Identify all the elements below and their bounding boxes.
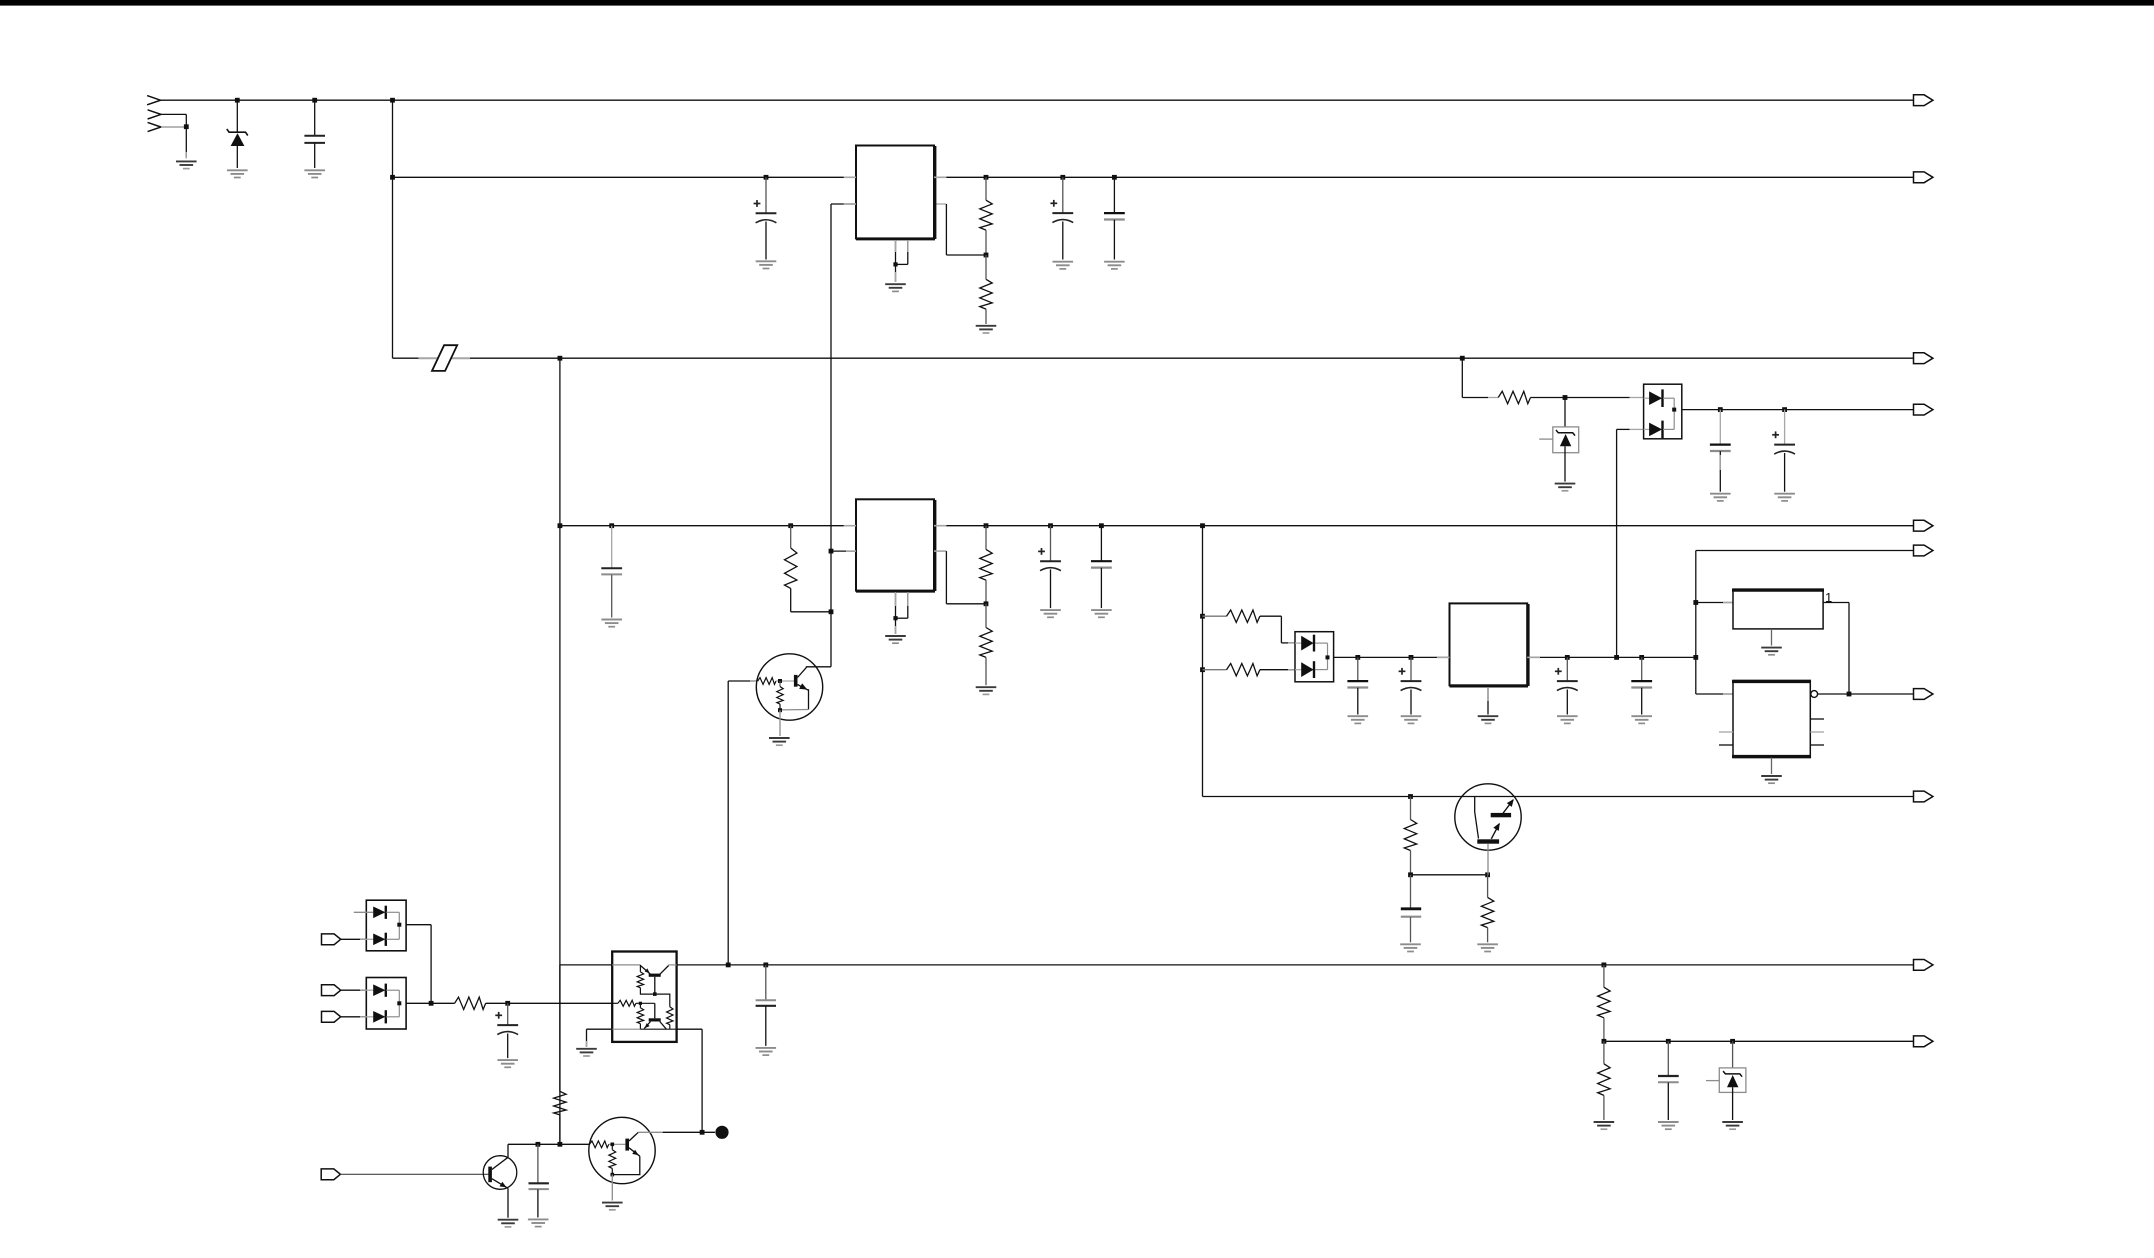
node junction bbox=[1693, 600, 1698, 605]
output connector P10 bbox=[1914, 1036, 1933, 1047]
capacitor C6 junction bbox=[1355, 655, 1360, 660]
U2 output stub bbox=[934, 525, 946, 527]
node junction bbox=[1847, 692, 1852, 697]
dual diode D6 bbox=[341, 978, 406, 1030]
transistor Q4 bbox=[1455, 784, 1521, 875]
node junction bbox=[829, 609, 834, 614]
node junction bbox=[1200, 523, 1205, 528]
node junction bbox=[558, 356, 563, 361]
transistor Q5 bbox=[589, 1117, 655, 1200]
ground bbox=[1400, 944, 1421, 951]
tvs D3 bbox=[1539, 398, 1579, 482]
ground bbox=[1091, 610, 1112, 617]
K1 gnd pin bbox=[1771, 629, 1773, 646]
wire rail1041 bbox=[1604, 1040, 1914, 1042]
node junction bbox=[536, 1142, 541, 1147]
ground bbox=[1658, 1122, 1679, 1129]
ground bbox=[976, 326, 997, 333]
node junction bbox=[1460, 356, 1465, 361]
ground bbox=[1761, 776, 1782, 783]
oscillator K1 bbox=[1732, 589, 1824, 629]
U2 input stub bbox=[844, 525, 856, 527]
wire bbox=[161, 114, 186, 126]
capacitor C18 junction bbox=[1099, 523, 1104, 528]
node junction bbox=[1602, 1039, 1607, 1044]
resistor R8 bbox=[1203, 664, 1297, 676]
capacitor C18 bbox=[1091, 526, 1112, 608]
capacitor C3 junction bbox=[1060, 175, 1065, 180]
capacitor C7 bbox=[1399, 657, 1422, 714]
wire bbox=[895, 618, 897, 634]
wire bbox=[340, 1173, 489, 1175]
wire bbox=[406, 925, 431, 1004]
input connector J1 pin3 bbox=[148, 122, 161, 131]
U2 pin2 right bbox=[934, 551, 986, 604]
wire bbox=[1818, 693, 1914, 695]
output connector P4 bbox=[1914, 404, 1933, 415]
node junction bbox=[429, 1001, 434, 1006]
wire bbox=[587, 1029, 613, 1047]
U1 pin2 stub bbox=[844, 203, 856, 205]
ground bbox=[756, 1048, 777, 1055]
wire bbox=[831, 203, 856, 205]
microcontroller U3 bbox=[1450, 603, 1529, 686]
U3 input stub bbox=[1437, 656, 1450, 658]
wire bbox=[185, 127, 187, 159]
wire rail1144 bbox=[508, 1143, 590, 1145]
capacitor C11 junction bbox=[1782, 407, 1787, 412]
capacitor C8 junction bbox=[1565, 655, 1570, 660]
ground bbox=[528, 1219, 549, 1226]
capacitor C17 junction bbox=[1048, 523, 1053, 528]
ground bbox=[1557, 716, 1578, 723]
ground bbox=[1477, 944, 1498, 951]
wire x=1696 vertical bbox=[1696, 551, 1914, 695]
resistor R14 bbox=[1598, 965, 1610, 1041]
inverter U5 bbox=[1732, 680, 1811, 757]
input connector J2 bbox=[322, 934, 341, 945]
ground bbox=[304, 170, 325, 177]
capacitor C1 bbox=[304, 100, 325, 168]
ground bbox=[1401, 716, 1422, 723]
wire bbox=[486, 1002, 613, 1004]
ground bbox=[1722, 1122, 1743, 1129]
voltage regulator U2 bbox=[856, 499, 935, 591]
transistor Q6 bbox=[483, 1144, 517, 1217]
node junction bbox=[558, 523, 563, 528]
node junction bbox=[1614, 655, 1619, 660]
wire x=728 vertical bbox=[727, 681, 729, 965]
capacitor C14 junction bbox=[763, 963, 768, 968]
voltage regulator U1 bbox=[856, 146, 935, 240]
capacitor C5 junction bbox=[609, 523, 614, 528]
capacitor C3 bbox=[1050, 177, 1073, 259]
dual transistor Q1 bbox=[612, 952, 676, 1042]
node junction bbox=[984, 523, 989, 528]
ground bbox=[1104, 262, 1125, 269]
wire bbox=[638, 1131, 715, 1133]
resistor R5 bbox=[980, 604, 992, 685]
output connector P1 bbox=[1914, 95, 1933, 106]
node junction bbox=[984, 601, 989, 606]
wire bbox=[1411, 874, 1488, 876]
output connector P7 bbox=[1914, 689, 1933, 700]
tvs D7 bbox=[1706, 1041, 1746, 1120]
wire bbox=[791, 611, 831, 613]
node junction bbox=[778, 679, 782, 683]
ground bbox=[497, 1060, 518, 1067]
resistor R12 bbox=[455, 997, 486, 1009]
ground bbox=[602, 1203, 623, 1210]
node junction bbox=[984, 175, 989, 180]
output connector P6 bbox=[1914, 545, 1933, 556]
wire bbox=[728, 680, 758, 682]
resistor R10 bbox=[1404, 797, 1416, 875]
capacitor C10 bbox=[1710, 410, 1731, 492]
ground bbox=[576, 1049, 597, 1056]
U5 output bubble bbox=[1811, 691, 1818, 698]
resistor R2 bbox=[980, 255, 992, 324]
capacitor C15 bbox=[529, 1144, 549, 1217]
wire bus2 bbox=[393, 176, 1914, 178]
wire bbox=[1823, 603, 1849, 695]
input connector J5 bbox=[321, 1169, 340, 1180]
node junction bbox=[893, 616, 897, 620]
node junction bbox=[726, 963, 731, 968]
resistor R13 bbox=[554, 965, 566, 1144]
ground bbox=[1774, 494, 1795, 501]
label 1 bbox=[1825, 590, 1832, 605]
ground bbox=[1555, 484, 1576, 491]
node junction bbox=[1563, 395, 1568, 400]
terminal TP1 bbox=[715, 1126, 728, 1139]
node junction bbox=[1485, 872, 1490, 877]
node junction bbox=[984, 253, 989, 258]
capacitor C16 junction bbox=[1666, 1039, 1671, 1044]
output connector P2 bbox=[1914, 172, 1933, 183]
wire fuse line bbox=[393, 357, 1914, 359]
resistor R6 bbox=[777, 681, 783, 710]
U2 pin2 left bbox=[829, 549, 856, 554]
ground bbox=[1710, 494, 1731, 501]
node junction bbox=[1408, 794, 1413, 799]
resistor R9 bbox=[1462, 358, 1565, 404]
ground bbox=[601, 620, 622, 627]
wire x=831 vertical bbox=[830, 204, 832, 667]
ground bbox=[769, 738, 790, 745]
ground bbox=[176, 161, 197, 168]
input connector J1 pin1 bbox=[147, 96, 160, 105]
fuse F1 bbox=[432, 345, 457, 371]
wire bbox=[895, 264, 897, 282]
tvs D7 junction bbox=[1730, 1039, 1735, 1044]
wire rail409 bbox=[1682, 409, 1914, 411]
input connector J1 pin2 bbox=[148, 110, 161, 119]
ground bbox=[885, 636, 906, 643]
node junction bbox=[1693, 655, 1698, 660]
wire bottom bus bbox=[560, 964, 1914, 966]
capacitor C4 junction bbox=[1112, 175, 1117, 180]
capacitor C12 bbox=[1401, 875, 1421, 943]
ground bbox=[1761, 648, 1782, 655]
wire bbox=[1696, 602, 1734, 604]
node junction bbox=[1602, 963, 1607, 968]
capacitor C2 junction bbox=[764, 175, 769, 180]
ground bbox=[1348, 716, 1369, 723]
resistor R11 bbox=[1481, 875, 1493, 943]
wire bbox=[677, 1029, 703, 1132]
capacitor C9 junction bbox=[1639, 655, 1644, 660]
capacitor C17 bbox=[1038, 526, 1061, 608]
capacitor C2 bbox=[754, 177, 777, 259]
U3 output stub bbox=[1527, 656, 1540, 658]
transistor Q3 bbox=[756, 654, 831, 720]
resistor R15 bbox=[1598, 1041, 1610, 1120]
node junction bbox=[184, 124, 189, 129]
node junction bbox=[505, 1001, 510, 1006]
wire bbox=[406, 1002, 455, 1004]
capacitor C11 bbox=[1772, 410, 1795, 492]
node junction bbox=[893, 262, 897, 266]
U3 gnd pin bbox=[1487, 685, 1489, 714]
dual diode D5 bbox=[341, 900, 406, 951]
dual diode D4 bbox=[1644, 384, 1682, 439]
capacitor C4 bbox=[1104, 177, 1125, 259]
U1 output stub bbox=[934, 176, 946, 178]
capacitor C7 junction bbox=[1409, 655, 1414, 660]
capacitor C10 junction bbox=[1718, 407, 1723, 412]
capacitor C9 bbox=[1631, 657, 1652, 714]
node junction bbox=[235, 98, 395, 103]
zener D1 bbox=[227, 100, 248, 168]
node junction bbox=[390, 175, 395, 180]
ground bbox=[756, 261, 777, 268]
capacitor C14 bbox=[756, 965, 776, 1046]
wire bbox=[934, 204, 986, 255]
resistor R3 bbox=[785, 526, 797, 612]
output connector P8 bbox=[1914, 791, 1933, 802]
resistor R4 bbox=[980, 526, 992, 604]
node junction bbox=[778, 708, 782, 712]
ground bbox=[1040, 610, 1061, 617]
output connector P3 bbox=[1914, 353, 1933, 364]
ground bbox=[498, 1220, 519, 1227]
wire bbox=[161, 126, 186, 128]
wire x=560 vertical bbox=[559, 358, 561, 1144]
U2 gnd pins bbox=[896, 591, 908, 619]
node junction bbox=[558, 1142, 563, 1147]
wire bbox=[779, 710, 781, 736]
wire x=1617 vertical bbox=[1617, 429, 1644, 657]
top title bar bbox=[0, 0, 2154, 6]
capacitor C6 bbox=[1347, 657, 1368, 714]
output connector P9 bbox=[1914, 960, 1933, 971]
capacitor C13 bbox=[495, 1003, 518, 1058]
input connector J4 bbox=[322, 1011, 341, 1022]
ground bbox=[227, 170, 248, 177]
ground bbox=[1053, 262, 1074, 269]
node junction bbox=[1200, 667, 1205, 672]
ground bbox=[1594, 1122, 1615, 1129]
wire rail797 bbox=[1203, 796, 1914, 798]
wire rail657 bbox=[1334, 656, 1696, 658]
ground bbox=[1478, 716, 1499, 723]
node junction bbox=[700, 1130, 705, 1135]
resistor R7 bbox=[1203, 610, 1297, 643]
capacitor C5 bbox=[601, 526, 622, 618]
node junction bbox=[1408, 872, 1413, 877]
wire bbox=[1565, 397, 1644, 399]
U1 input stub bbox=[844, 176, 856, 178]
wire mid bus bbox=[560, 525, 1914, 527]
ground bbox=[976, 687, 997, 694]
node junction bbox=[1200, 614, 1205, 619]
node junction bbox=[788, 523, 793, 528]
U5 nc stubs bbox=[1719, 719, 1824, 745]
ground bbox=[1631, 716, 1652, 723]
dual diode D2 bbox=[1295, 632, 1334, 682]
wire bbox=[418, 357, 470, 359]
wire x=1202 vertical bbox=[1202, 526, 1204, 797]
capacitor C8 bbox=[1555, 657, 1578, 714]
resistor R1 bbox=[980, 177, 992, 255]
vertical bus wire bbox=[392, 100, 394, 358]
U5 gnd pin bbox=[1771, 758, 1773, 774]
capacitor C16 bbox=[1658, 1041, 1679, 1120]
wire VIN bus bbox=[161, 99, 1914, 101]
output connector P5 bbox=[1914, 520, 1933, 531]
U1 gnd pins bbox=[896, 238, 908, 264]
ground bbox=[885, 284, 906, 291]
input connector J3 bbox=[322, 985, 341, 996]
